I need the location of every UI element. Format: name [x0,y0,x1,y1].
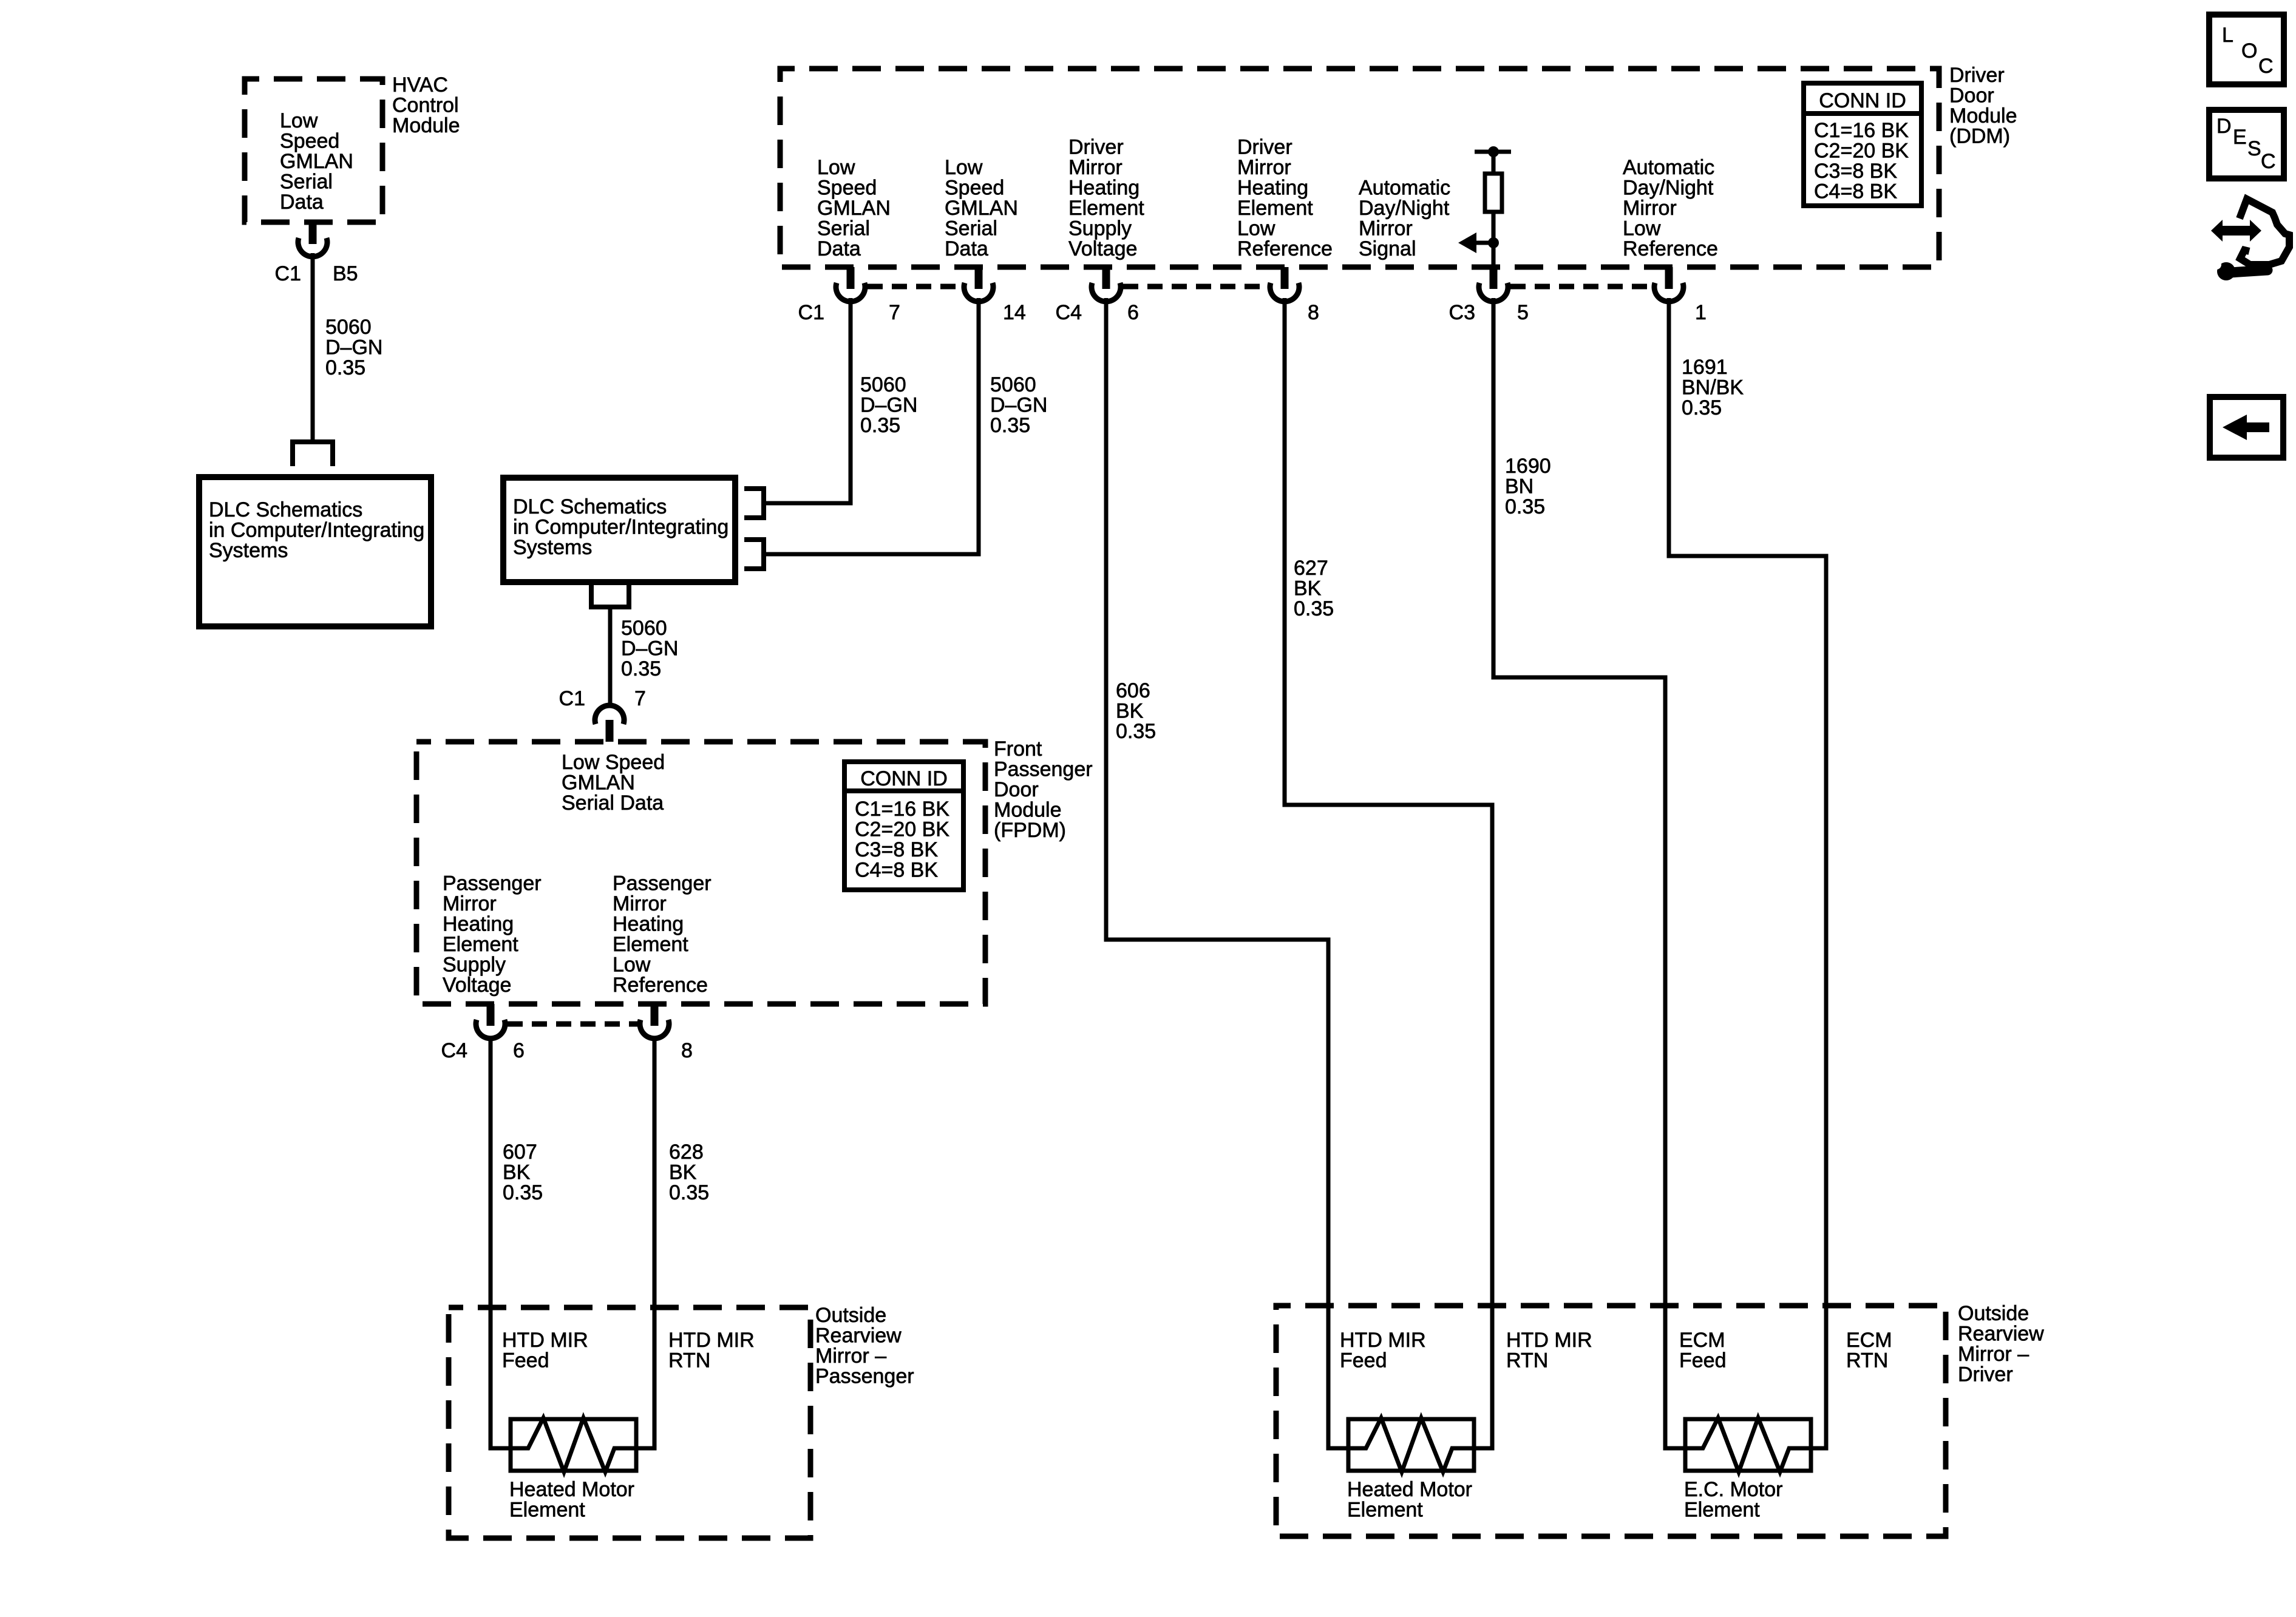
svg-text:Element: Element [1068,197,1144,220]
connector C1 pin 7 of FPDM [559,687,646,742]
svg-text:Driver: Driver [1068,136,1124,159]
svg-text:Door: Door [1949,84,1994,107]
svg-text:Module: Module [994,799,1062,822]
svg-text:Mirror: Mirror [443,892,497,915]
wire from DDM pin 14 to DLC box 2 lower bracket [766,298,1047,554]
svg-text:Heating: Heating [1068,177,1140,200]
svg-text:Data: Data [945,237,988,260]
svg-text:0.35: 0.35 [1505,495,1545,518]
svg-text:C1=16 BK: C1=16 BK [855,798,949,821]
svg-text:5060: 5060 [621,617,667,640]
module Driver Door Module (DDM) [780,64,2017,267]
icon DESC box [2209,110,2284,178]
svg-text:Element: Element [613,933,688,956]
svg-text:GMLAN: GMLAN [562,771,635,795]
wire 5060 D-GN 0.35 from DLC box 2 to FPDM C1 pin 7 [610,607,678,707]
dashed jumper of DDM C1 connector [868,284,962,290]
svg-text:5060: 5060 [325,316,372,339]
svg-text:C4: C4 [441,1039,467,1062]
svg-text:Mirror: Mirror [1623,197,1677,220]
svg-text:0.35: 0.35 [325,356,365,379]
svg-text:Control: Control [392,94,459,117]
svg-text:Systems: Systems [513,536,592,559]
module Outside Rearview Mirror - Passenger [449,1304,914,1538]
dashed jumper of DDM C4 connector [1123,284,1268,290]
svg-text:1691: 1691 [1682,356,1728,379]
svg-text:5060: 5060 [990,373,1036,396]
svg-text:Driver: Driver [1958,1363,2013,1386]
svg-text:GMLAN: GMLAN [280,150,353,173]
svg-text:5: 5 [1517,301,1529,324]
svg-text:B5: B5 [333,262,358,285]
svg-text:S: S [2247,137,2261,160]
svg-text:0.35: 0.35 [860,414,900,437]
svg-text:607: 607 [503,1141,537,1164]
resistor Heated Motor Element (passenger) [509,1419,636,1522]
svg-text:HTD MIR: HTD MIR [502,1329,588,1352]
svg-text:Mirror: Mirror [1359,217,1413,240]
svg-text:Element: Element [1684,1499,1760,1522]
svg-text:Heating: Heating [1237,177,1308,200]
svg-text:C3=8 BK: C3=8 BK [855,838,938,861]
svg-text:CONN ID: CONN ID [1819,89,1906,112]
wire 5060 D-GN 0.35 from HVAC C1 B5 to DLC box [313,253,382,442]
svg-text:(DDM): (DDM) [1949,125,2010,148]
svg-text:Heated Motor: Heated Motor [1347,1478,1472,1501]
svg-text:Reference: Reference [1237,237,1333,260]
svg-text:628: 628 [669,1141,704,1164]
svg-text:C4=8 BK: C4=8 BK [1814,180,1897,203]
svg-text:Mirror: Mirror [1068,156,1123,179]
module Outside Rearview Mirror - Driver [1276,1302,2044,1536]
svg-text:Feed: Feed [502,1349,549,1372]
svg-text:D–GN: D–GN [990,394,1047,417]
svg-text:Mirror: Mirror [613,892,667,915]
CONN ID table of DDM [1804,83,1921,206]
connector C1 pin 7 of DDM [798,267,900,324]
wire 606 BK 0.35 from DDM pin 6, heated element feed; wire 627 BK 0.35 return to pin 8 [1106,298,1492,1472]
svg-text:RTN: RTN [1506,1349,1548,1372]
svg-text:BK: BK [1116,700,1144,723]
terminal bracket DLC box 2 right upper [744,489,764,518]
svg-text:C3=8 BK: C3=8 BK [1814,160,1897,183]
svg-text:Rearview: Rearview [1958,1323,2044,1346]
svg-text:Reference: Reference [613,974,708,997]
svg-text:6: 6 [513,1039,525,1062]
svg-text:Heating: Heating [613,913,684,936]
connector C1 pin 14 of DDM [964,267,1026,324]
icon double arrow with outline and wrench [2211,199,2289,280]
icon back arrow box [2210,397,2283,458]
svg-text:BK: BK [1294,577,1322,600]
svg-text:Systems: Systems [209,539,288,562]
svg-text:14: 14 [1003,301,1026,324]
svg-text:0.35: 0.35 [503,1181,543,1204]
svg-text:BK: BK [669,1161,697,1184]
svg-text:Heated Motor: Heated Motor [509,1478,634,1501]
terminal bracket into DLC box 1 [293,442,333,466]
svg-text:Passenger: Passenger [994,758,1093,781]
svg-text:GMLAN: GMLAN [817,197,891,220]
svg-text:C1: C1 [798,301,824,324]
svg-text:Passenger: Passenger [613,872,712,895]
svg-text:O: O [2241,39,2257,63]
svg-text:L: L [2222,24,2233,47]
svg-text:Mirror –: Mirror – [815,1344,886,1368]
svg-text:Data: Data [280,191,324,214]
svg-text:C3: C3 [1449,301,1475,324]
svg-text:in Computer/Integrating: in Computer/Integrating [513,516,729,539]
box DLC Schematics (left) [199,477,431,626]
svg-text:0.35: 0.35 [1294,597,1334,620]
svg-text:Feed: Feed [1340,1349,1387,1372]
svg-text:Low: Low [945,156,983,179]
svg-text:ECM: ECM [1846,1329,1892,1352]
svg-text:Low: Low [613,954,651,977]
svg-text:C4: C4 [1056,301,1082,324]
svg-text:Supply: Supply [443,954,506,977]
svg-text:Outside: Outside [815,1304,886,1327]
connector C1 pin B5 of HVAC [275,222,358,285]
svg-text:7: 7 [634,687,646,710]
svg-text:Heating: Heating [443,913,514,936]
svg-text:Front: Front [994,737,1042,761]
svg-text:C: C [2258,55,2274,78]
svg-text:Signal: Signal [1359,237,1416,260]
svg-text:RTN: RTN [668,1349,710,1372]
svg-text:HVAC: HVAC [392,73,448,97]
svg-text:Element: Element [509,1499,585,1522]
svg-text:C1: C1 [559,687,585,710]
terminal bracket DLC box 2 right lower [744,540,764,569]
svg-text:Serial: Serial [817,217,870,240]
svg-text:D: D [2216,115,2232,138]
svg-text:C: C [2261,150,2276,173]
wire from DDM pin 7 to DLC box 2 upper bracket [766,298,917,503]
svg-text:627: 627 [1294,557,1328,580]
svg-text:BK: BK [503,1161,531,1184]
svg-text:Low Speed: Low Speed [562,751,665,774]
svg-text:C2=20 BK: C2=20 BK [855,818,949,841]
svg-text:Serial: Serial [945,217,997,240]
svg-text:Module: Module [1949,104,2017,127]
connector C3 pin 1 of DDM [1654,267,1707,324]
resistor pull-up and arrow of Automatic Day/Night Mirror Signal inside DDM [1458,146,1511,268]
svg-text:Rearview: Rearview [815,1324,902,1347]
svg-text:BN/BK: BN/BK [1682,376,1744,399]
svg-text:C1: C1 [275,262,301,285]
connector C4 pin 8 of FPDM [640,1004,693,1062]
svg-text:5060: 5060 [860,373,906,396]
module HVAC Control Module [245,73,460,222]
module Front Passenger Door Module (FPDM) [416,737,1093,1004]
svg-text:Speed: Speed [817,177,877,200]
svg-text:Voltage: Voltage [443,974,511,997]
resistor E.C. Motor Element (driver) [1684,1419,1811,1522]
svg-text:0.35: 0.35 [669,1181,709,1204]
svg-text:Serial Data: Serial Data [562,792,664,815]
connector C4 pin 6 of FPDM [441,1004,525,1062]
svg-text:Day/Night: Day/Night [1359,197,1450,220]
svg-text:DLC Schematics: DLC Schematics [209,498,362,521]
svg-text:BN: BN [1505,475,1533,498]
svg-text:C4=8 BK: C4=8 BK [855,859,938,882]
svg-text:8: 8 [1308,301,1319,324]
svg-text:Data: Data [817,237,861,260]
resistor Heated Motor Element (driver) [1347,1419,1474,1522]
svg-text:0.35: 0.35 [1682,396,1722,419]
wire 607 BK 0.35 from FPDM pin 6 to heated element, wire 628 BK 0.35 return to pin 8 [491,1037,709,1472]
svg-text:Outside: Outside [1958,1302,2029,1325]
svg-text:0.35: 0.35 [1116,720,1156,743]
svg-text:Driver: Driver [1237,136,1292,159]
svg-text:Mirror –: Mirror – [1958,1343,2029,1366]
svg-text:Passenger: Passenger [443,872,542,895]
svg-text:8: 8 [681,1039,693,1062]
CONN ID table of FPDM [844,762,963,890]
svg-text:Supply: Supply [1068,217,1132,240]
svg-text:Speed: Speed [280,130,339,153]
svg-text:0.35: 0.35 [990,414,1030,437]
dashed jumper of FPDM C4 connector [508,1022,638,1027]
svg-text:Mirror: Mirror [1237,156,1291,179]
svg-text:Day/Night: Day/Night [1623,177,1714,200]
terminal bracket below DLC box 2 [591,585,629,607]
svg-text:HTD MIR: HTD MIR [1506,1329,1592,1352]
svg-text:Voltage: Voltage [1068,237,1137,260]
connector C3 pin 5 of DDM [1449,267,1529,324]
svg-text:Passenger: Passenger [815,1365,914,1388]
wire 1690 BN 0.35 from DDM pin 5, E.C. motor feed; wire 1691 BN/BK 0.35 return to pin 1 [1493,298,1826,1472]
svg-text:Element: Element [1347,1499,1423,1522]
svg-text:E: E [2233,126,2247,149]
icon LOC box [2209,15,2284,84]
box DLC Schematics (middle) [503,478,735,582]
svg-text:Element: Element [1237,197,1313,220]
svg-text:E.C. Motor: E.C. Motor [1684,1478,1782,1501]
svg-text:D–GN: D–GN [860,394,917,417]
svg-text:DLC Schematics: DLC Schematics [513,495,667,518]
svg-text:Door: Door [994,778,1039,801]
svg-text:(FPDM): (FPDM) [994,819,1066,842]
svg-text:C2=20 BK: C2=20 BK [1814,140,1909,163]
svg-text:CONN ID: CONN ID [860,767,948,790]
dashed jumper of DDM C3 connector [1510,284,1652,290]
svg-text:Low: Low [1237,217,1275,240]
svg-text:GMLAN: GMLAN [945,197,1018,220]
svg-text:Low: Low [817,156,855,179]
svg-text:7: 7 [889,301,900,324]
svg-text:C1=16 BK: C1=16 BK [1814,119,1909,142]
svg-text:Driver: Driver [1949,64,2005,87]
svg-text:HTD MIR: HTD MIR [1340,1329,1426,1352]
svg-text:D–GN: D–GN [621,637,678,660]
svg-text:0.35: 0.35 [621,657,661,680]
svg-text:Speed: Speed [945,177,1004,200]
svg-text:Serial: Serial [280,171,333,194]
svg-text:606: 606 [1116,679,1150,702]
svg-text:Module: Module [392,114,460,137]
svg-text:Low: Low [1623,217,1661,240]
svg-text:Low: Low [280,109,318,132]
svg-text:1: 1 [1695,301,1707,324]
svg-text:ECM: ECM [1679,1329,1725,1352]
connector C4 pin 8 of DDM [1270,267,1319,324]
svg-text:6: 6 [1127,301,1139,324]
svg-text:D–GN: D–GN [325,336,382,359]
svg-text:in Computer/Integrating: in Computer/Integrating [209,519,424,542]
svg-text:HTD MIR: HTD MIR [668,1329,755,1352]
svg-text:Feed: Feed [1679,1349,1727,1372]
svg-text:Automatic: Automatic [1623,156,1714,179]
svg-text:Automatic: Automatic [1359,177,1450,200]
connector C4 pin 6 of DDM [1056,267,1139,324]
svg-text:Reference: Reference [1623,237,1718,260]
svg-text:RTN: RTN [1846,1349,1888,1372]
svg-text:1690: 1690 [1505,455,1551,478]
svg-text:Element: Element [443,933,518,956]
